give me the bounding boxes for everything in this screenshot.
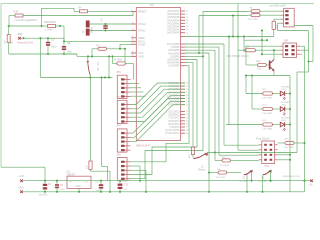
wire bus diagonal bundle to JP3 JP4 — [131, 83, 186, 142]
resistor R15 led3 row — [226, 118, 291, 131]
wire R14 to RESET net — [42, 12, 134, 16]
svg-text:1-n=m: 1-n=m — [45, 29, 52, 32]
resistor R16 wirepad — [278, 139, 306, 150]
wire XTAL2 net — [90, 23, 131, 25]
wire isp right pin3 stub — [300, 53, 303, 55]
wire y26 segment — [9, 25, 44, 27]
resistor R12 led1 row — [246, 87, 291, 100]
svg-text:Modus: Modus — [198, 169, 206, 172]
capacitor C8 — [39, 181, 52, 197]
svg-text:R14: R14 — [14, 9, 19, 13]
wire bus feeds to JP6 — [131, 56, 204, 178]
wire AVCC net y41 — [64, 40, 131, 42]
wire isp pin1 net — [246, 46, 281, 65]
svg-text:JP5: JP5 — [116, 71, 121, 74]
resistor R7 vertical — [272, 21, 279, 36]
svg-text:VCC: VCC — [138, 51, 144, 55]
wire PB row 44 to prog row1 — [185, 44, 224, 145]
svg-text:10u/25v: 10u/25v — [39, 194, 48, 196]
wire rail A +5V — [23, 180, 312, 182]
resistor R1 DB9100 — [44, 21, 61, 31]
svg-text:JP3: JP3 — [116, 96, 121, 99]
wire +12V feed bottom-left — [1, 167, 45, 181]
wire JP6 pin rows to rails — [131, 166, 147, 192]
wire isp pin3 net — [261, 53, 281, 55]
svg-text:GND: GND — [18, 186, 24, 189]
svg-text:(SCK)PB7: (SCK)PB7 — [168, 65, 180, 68]
connector SV3 prog switch — [259, 141, 278, 168]
svg-text:1.00 OHM: 1.00 OHM — [284, 147, 294, 149]
wire isp right pin2 drop — [300, 49, 309, 51]
resistor R18 470ohm — [214, 151, 259, 166]
connector JP4 — [116, 125, 130, 152]
wire x233 drop — [232, 14, 234, 36]
svg-text:VI: VI — [70, 180, 73, 183]
ic U1 ATmega body — [136, 4, 180, 140]
connector JP5 — [116, 71, 130, 98]
svg-text:Un-OFF: Un-OFF — [259, 181, 268, 183]
wire right nest inner — [307, 31, 313, 63]
wire PB row 50 to S1 net — [185, 50, 215, 152]
svg-text:myUSBtinyISP: myUSBtinyISP — [269, 3, 286, 7]
ic U1 left pin stubs — [131, 10, 147, 59]
wire rail B gnd — [23, 191, 290, 193]
svg-text:DB9100(B): DB9100(B) — [44, 21, 56, 24]
svg-text:VO: VO — [85, 180, 89, 183]
wire mid verticals to bottom — [100, 76, 107, 180]
wire node x41 — [40, 16, 42, 28]
wire usb pin4 loop — [278, 23, 309, 30]
wire usb pin3 to R7 — [274, 19, 281, 21]
wire led feed drops — [228, 35, 252, 124]
svg-text:+5V: +5V — [309, 184, 314, 186]
resistor R5 10ohm oval — [113, 49, 134, 80]
svg-text:100nF: 100nF — [96, 190, 103, 192]
wire net to R8 y11 — [202, 12, 248, 58]
connector JP6 — [116, 153, 130, 180]
label net atmega — [12, 19, 37, 22]
svg-text:GND: GND — [76, 186, 81, 188]
svg-text:_x [04-ATmega32&P]: _x [04-ATmega32&P] — [12, 19, 37, 22]
svg-text:WIREPADS-5V(-): WIREPADS-5V(-) — [283, 175, 300, 178]
wire node left vertical — [8, 16, 10, 28]
svg-text:220 OHM: 220 OHM — [248, 19, 258, 21]
ic U1 right pins PC — [165, 111, 189, 136]
svg-text:IC2: IC2 — [150, 4, 154, 7]
wire ref rail y38 — [24, 38, 66, 42]
svg-text:R10: R10 — [245, 46, 250, 48]
svg-text:AREF: AREF — [138, 36, 145, 40]
svg-text:LED1: LED1 — [281, 89, 287, 91]
connector JP3 — [116, 96, 130, 123]
wire prog feeds — [219, 145, 259, 155]
wire x262 drop — [261, 29, 263, 54]
svg-text:JP4: JP4 — [116, 125, 121, 128]
capacitor C9 — [55, 181, 65, 192]
wire prog right pins to x290 — [278, 154, 291, 161]
wire gnd corner to y56 — [64, 54, 131, 56]
node rail B dots — [44, 191, 147, 193]
wire right nest outer — [294, 26, 313, 62]
svg-text:(ADC0)PA0: (ADC0)PA0 — [167, 32, 180, 35]
svg-text:+REF: +REF — [17, 33, 24, 36]
wire x297 net to prog switch — [297, 62, 309, 153]
wire isp right pin1 drop — [300, 46, 305, 181]
node gnd y56 dots — [87, 55, 114, 57]
wire AGND net — [120, 44, 131, 49]
svg-text:(TOSC2)PC7: (TOSC2)PC7 — [165, 132, 180, 135]
svg-text:GND: GND — [138, 54, 144, 58]
svg-text:ISP: ISP — [284, 40, 288, 43]
wire IC1 gnd pin — [78, 188, 80, 191]
svg-text:Un-ON: Un-ON — [240, 181, 247, 183]
wire x290 vertical — [289, 76, 291, 193]
wire PB row 53 to gnd rail — [185, 53, 210, 193]
resistor R9 — [248, 14, 281, 21]
svg-text:3.00 OHM: 3.00 OHM — [262, 113, 272, 115]
svg-text:MEGA16-P: MEGA16-P — [136, 144, 150, 148]
svg-text:RESET: RESET — [138, 10, 147, 14]
svg-text:470 OHM: 470 OHM — [220, 165, 229, 167]
svg-text:100n: 100n — [60, 189, 66, 191]
svg-text:10 OHM: 10 OHM — [114, 59, 123, 61]
wire T1 collector — [273, 50, 275, 59]
svg-text:Prog Switch: Prog Switch — [256, 137, 270, 140]
svg-text:XTAL2: XTAL2 — [138, 22, 146, 26]
wire JP5 pin stubs right — [131, 84, 146, 97]
wire emitter rail y75 — [245, 74, 290, 76]
svg-text:3.00 OHM: 3.00 OHM — [262, 128, 272, 130]
transistor T1 — [269, 60, 274, 71]
wire y77 rail — [41, 76, 113, 78]
svg-text:LCD LED: LCD LED — [96, 62, 98, 72]
resistor R8 — [248, 7, 281, 12]
resistor R2 vertical — [5, 26, 14, 54]
resistor R19 470ohm to S2 — [208, 169, 241, 179]
frame top rail wire — [1, 3, 314, 5]
connector SV1 usb — [281, 8, 295, 27]
label myUSBtinyISP — [269, 3, 286, 7]
regulator IC1 78M05 — [67, 170, 92, 188]
switch S1 modus — [185, 63, 297, 172]
resistor R14 — [9, 9, 42, 17]
resistor R3 — [91, 44, 126, 57]
svg-text:(OC2)PD7: (OC2)PD7 — [168, 104, 180, 107]
svg-text:+12V: +12V — [18, 175, 24, 178]
capacitor C1 22p — [101, 17, 108, 30]
svg-text:100n: 100n — [51, 46, 57, 49]
ic U1 value label — [136, 144, 150, 148]
node rail A dots — [44, 180, 306, 182]
switch S2 un-on — [240, 170, 253, 193]
label our pcb — [226, 55, 249, 58]
supply +12V — [18, 175, 24, 182]
svg-text:XTAL1: XTAL1 — [138, 29, 146, 33]
capacitor C12 — [95, 181, 103, 192]
switch S4 LCD — [87, 56, 98, 77]
ic U1 right pins PD — [167, 82, 189, 107]
wire R1 to C6 net — [60, 26, 64, 41]
svg-text:16MHz: 16MHz — [92, 26, 94, 34]
wire x238 drop — [237, 4, 239, 151]
supply +5V wirepad — [283, 175, 313, 186]
wire gnd rail y54 — [9, 53, 77, 55]
resistor R17 vertical — [87, 78, 110, 192]
ic U1 right pins PB — [167, 43, 188, 68]
svg-text:OUR PCB(off 100nC): OUR PCB(off 100nC) — [226, 55, 249, 58]
capacitor C11 — [118, 181, 129, 192]
supply +REF testpoint — [17, 33, 34, 44]
capacitor C3 — [46, 37, 57, 55]
svg-text:LED2: LED2 — [281, 105, 287, 107]
ic U1 right pin extra aref — [181, 36, 186, 38]
wire T1 emitter to rail — [273, 71, 275, 76]
label Prog Switch — [256, 137, 270, 140]
wire isp pin2 net R10 — [238, 46, 281, 52]
wire y36 rail — [185, 35, 274, 37]
svg-text:JP6: JP6 — [116, 153, 121, 156]
crystal Q1 — [83, 21, 94, 36]
wire left border net — [0, 4, 2, 168]
ic U1 right pins PA — [167, 10, 189, 35]
wire testpoint drop x40 — [39, 37, 41, 77]
switch S3 un-off — [259, 170, 272, 193]
svg-text:100n: 100n — [67, 50, 73, 53]
supply GND left — [18, 186, 24, 193]
wire PB row 47 to prog row3 — [185, 47, 219, 155]
wire XTAL1 net — [90, 29, 131, 31]
capacitor C6 — [62, 41, 73, 55]
resistor R13 led2 row — [252, 102, 291, 115]
resistor R4 — [42, 7, 132, 15]
svg-text:3.00 OHM: 3.00 OHM — [262, 97, 272, 99]
connector SV2 ISP — [281, 40, 300, 58]
resistor R11 base — [246, 61, 269, 70]
wire net to R9 y15 — [198, 16, 248, 55]
svg-text:SV3: SV3 — [265, 165, 270, 168]
wire gnd right corner — [290, 181, 305, 192]
svg-text:LED3: LED3 — [281, 120, 287, 122]
svg-text:470 OHM: 470 OHM — [216, 177, 225, 179]
svg-text:AGND: AGND — [138, 42, 146, 46]
svg-text:Testpunkt(2.5V): Testpunkt(2.5V) — [17, 42, 33, 45]
wire x109 link — [108, 56, 110, 77]
wire y40 rail — [243, 35, 268, 52]
